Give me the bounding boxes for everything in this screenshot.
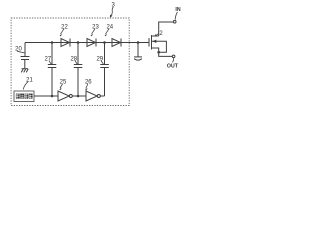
svg-text:20: 20 — [15, 46, 22, 52]
svg-text:25: 25 — [60, 80, 67, 86]
svg-text:24: 24 — [106, 24, 113, 30]
svg-text:27: 27 — [44, 56, 51, 62]
svg-text:2: 2 — [159, 31, 163, 37]
svg-text:22: 22 — [61, 24, 68, 30]
svg-text:29: 29 — [96, 56, 103, 62]
svg-text:IN: IN — [175, 7, 180, 13]
svg-text:OUT: OUT — [167, 64, 179, 70]
svg-text:3: 3 — [112, 3, 116, 9]
svg-text:28: 28 — [70, 56, 77, 62]
svg-text:23: 23 — [92, 24, 99, 30]
svg-text:21: 21 — [26, 78, 33, 84]
svg-text:26: 26 — [85, 80, 92, 86]
